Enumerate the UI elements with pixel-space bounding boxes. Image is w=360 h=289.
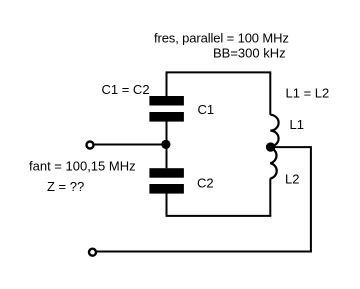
svg-text:Z = ??: Z = ?? bbox=[47, 179, 84, 194]
svg-text:fres, parallel = 100 MHz: fres, parallel = 100 MHz bbox=[154, 31, 289, 46]
wire left branch middle (C1 bottom to C2 top) bbox=[166, 122, 168, 169]
inductor L1 bbox=[270, 115, 278, 147]
wire left terminal lead bbox=[94, 144, 167, 146]
inductor L2 bbox=[270, 148, 276, 179]
wire right outer vertical bbox=[310, 146, 312, 252]
svg-text:L1: L1 bbox=[290, 117, 304, 132]
wire from L1/L2 tap to the right bbox=[271, 146, 311, 148]
wire top loop: left vertical up, top horizontal, right vertical down bbox=[167, 72, 271, 114]
svg-text:fant = 100,15 MHz: fant = 100,15 MHz bbox=[29, 159, 136, 174]
svg-text:C1: C1 bbox=[198, 102, 215, 117]
wire bottom terminal lead bbox=[97, 251, 312, 253]
wire right branch lower (L2 bottom to bottom rail) bbox=[269, 178, 271, 216]
svg-text:BB=300 kHz: BB=300 kHz bbox=[213, 45, 286, 60]
terminal (open circle) upper left bbox=[87, 142, 94, 149]
svg-text:L1 = L2: L1 = L2 bbox=[286, 86, 330, 101]
junction node between C1 and C2 bbox=[161, 140, 170, 149]
capacitor C2 bbox=[149, 168, 184, 193]
svg-text:L2: L2 bbox=[285, 172, 299, 187]
svg-text:C2: C2 bbox=[197, 176, 214, 191]
svg-text:C1 = C2: C1 = C2 bbox=[102, 82, 150, 97]
junction node between L1 and L2 bbox=[266, 142, 275, 151]
terminal (open circle) lower left bbox=[89, 249, 96, 256]
wire left branch bottom (C2 bottom to bottom rail) bbox=[166, 194, 168, 217]
wire bottom rail of loop bbox=[166, 215, 272, 217]
capacitor C1 bbox=[149, 96, 184, 122]
